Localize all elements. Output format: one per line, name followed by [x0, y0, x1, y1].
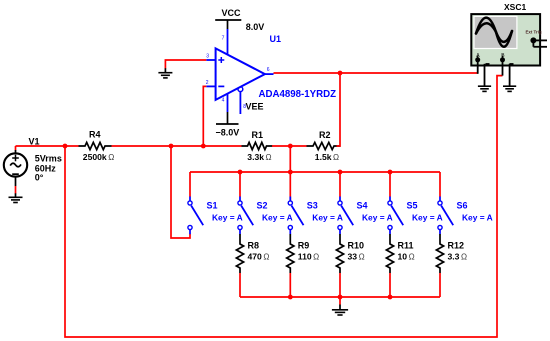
wire rail R1 to R2	[272, 145, 307, 147]
wire S1 top stub	[189, 172, 191, 197]
wire S1 bypass branch	[171, 146, 190, 238]
svg-text:R12: R12	[448, 240, 465, 250]
svg-text:ADA4898-1YRDZ: ADA4898-1YRDZ	[259, 89, 337, 100]
wire scope B plus stub	[502, 60, 504, 76]
node rail R11	[388, 295, 393, 300]
ground at resistor rail	[332, 305, 348, 316]
svg-text:3.3kΩ: 3.3kΩ	[247, 152, 271, 162]
wire V1 to scope B bottom loop	[65, 76, 503, 337]
svg-text:2500kΩ: 2500kΩ	[83, 152, 114, 162]
svg-text:7: 7	[222, 36, 225, 42]
Ext Trig terminal	[526, 30, 548, 47]
wire rail R4 to R1	[112, 145, 242, 147]
svg-text:33Ω: 33Ω	[348, 252, 365, 262]
wire R12 to bottom rail	[439, 273, 441, 297]
svg-text:Key = A: Key = A	[462, 213, 493, 223]
oscilloscope XSC1	[471, 14, 540, 65]
svg-text:8.0V: 8.0V	[246, 22, 265, 32]
svg-text:2: 2	[206, 80, 209, 86]
wire	[15, 186, 17, 194]
svg-text:Ext Trig: Ext Trig	[526, 30, 542, 35]
channel B terminal	[500, 53, 514, 64]
svg-text:3: 3	[206, 53, 209, 59]
wire S6 top stub	[439, 172, 441, 197]
resistor R2	[307, 142, 341, 149]
VCC power symbol	[215, 20, 241, 29]
wire scope A plus stub	[477, 60, 479, 74]
svg-text:S3: S3	[307, 200, 318, 210]
wire ground stem	[339, 297, 341, 305]
wire non-inverting input to ground	[165, 60, 206, 69]
node S3 tap	[288, 170, 293, 175]
svg-text:R1: R1	[252, 130, 264, 140]
wire R8 to bottom rail	[239, 273, 241, 297]
switch S2	[238, 197, 253, 235]
switch S3	[288, 197, 303, 235]
svg-text:6: 6	[267, 67, 270, 73]
svg-text:10Ω: 10Ω	[398, 252, 415, 262]
op-amp U1 pin 8 disable pin	[238, 87, 243, 114]
wire R9 to bottom rail	[289, 273, 291, 297]
svg-text:−8.0V: −8.0V	[216, 127, 240, 137]
svg-text:R4: R4	[89, 130, 101, 140]
svg-text:1.5kΩ: 1.5kΩ	[315, 152, 339, 162]
svg-text:3.3Ω: 3.3Ω	[448, 252, 468, 262]
node S5 tap	[388, 170, 393, 175]
V1 value labels	[35, 153, 62, 182]
wire switch rail horizontal	[190, 171, 440, 173]
ground scope B	[503, 86, 516, 91]
wire scope B minus stem	[509, 64, 511, 86]
ground under V1	[9, 193, 23, 202]
wire scope A minus stem	[484, 64, 486, 86]
svg-text:VCC: VCC	[222, 8, 242, 18]
svg-text:R11: R11	[398, 240, 414, 250]
svg-text:S6: S6	[457, 200, 468, 210]
svg-text:S5: S5	[407, 200, 418, 210]
wire S2 top stub	[239, 172, 241, 197]
svg-text:110Ω: 110Ω	[298, 252, 319, 262]
wire main input rail	[16, 145, 79, 147]
node inverting input branch	[201, 144, 206, 149]
resistor R9	[287, 234, 294, 273]
svg-text:4: 4	[222, 98, 225, 104]
ground at non-inverting input	[158, 68, 172, 78]
svg-text:R8: R8	[248, 240, 260, 250]
svg-text:Key = A: Key = A	[312, 213, 343, 223]
wire inverting input riser	[203, 86, 206, 146]
node rail R9	[288, 295, 293, 300]
svg-text:R9: R9	[298, 240, 310, 250]
switch S6	[438, 197, 453, 235]
svg-text:0°: 0°	[35, 173, 44, 183]
svg-text:S2: S2	[257, 200, 268, 210]
wire switch top rail	[289, 146, 291, 203]
VEE power symbol -8.0V	[216, 112, 239, 124]
resistor R4	[79, 142, 112, 149]
node junction to bottom loop	[63, 144, 68, 149]
wire R11 to bottom rail	[389, 273, 391, 297]
voltage source V1	[4, 146, 27, 186]
wire feedback riser R2 to output	[337, 73, 341, 146]
node switch-network branch	[288, 144, 293, 149]
resistor R10	[336, 234, 343, 273]
svg-text:Key = A: Key = A	[362, 213, 393, 223]
svg-text:8: 8	[243, 104, 246, 110]
svg-text:Key = A: Key = A	[212, 213, 243, 223]
svg-text:V1: V1	[29, 136, 40, 146]
switch S1	[188, 197, 203, 235]
op-amp U1	[206, 48, 273, 100]
switch S4	[338, 197, 353, 235]
wire resistor bottom rail	[240, 296, 440, 298]
node S4 tap	[338, 170, 343, 175]
svg-text:S1: S1	[207, 200, 218, 210]
wire S4 top stub	[339, 172, 341, 197]
svg-text:5Vrms: 5Vrms	[35, 153, 62, 163]
wire op-amp output to scope A	[274, 72, 478, 74]
wire S5 top stub	[389, 172, 391, 197]
svg-text:XSC1: XSC1	[504, 2, 526, 12]
svg-text:VEE: VEE	[246, 101, 264, 111]
switch S5	[388, 197, 403, 235]
svg-text:R10: R10	[348, 240, 365, 250]
channel A terminal	[475, 53, 489, 64]
resistor R1	[242, 142, 273, 149]
svg-text:470Ω: 470Ω	[248, 252, 270, 262]
node S1 branch	[169, 144, 174, 149]
svg-text:S4: S4	[357, 200, 368, 210]
wire R10 to bottom rail	[339, 273, 341, 297]
ground scope A	[478, 86, 491, 91]
resistor R8	[236, 234, 243, 273]
node rail R10 ground	[338, 295, 343, 300]
svg-text:U1: U1	[270, 34, 282, 44]
resistor R11	[386, 234, 393, 273]
svg-text:Key = A: Key = A	[412, 213, 443, 223]
node S2 tap	[238, 170, 243, 175]
resistor R12	[436, 234, 443, 273]
svg-text:R2: R2	[319, 130, 331, 140]
op-amp U1 pin 7 wire	[227, 29, 229, 55]
node output feedback junction	[338, 71, 343, 76]
op-amp U1 pin 4 wire	[227, 94, 229, 112]
svg-text:Key = A: Key = A	[262, 213, 293, 223]
